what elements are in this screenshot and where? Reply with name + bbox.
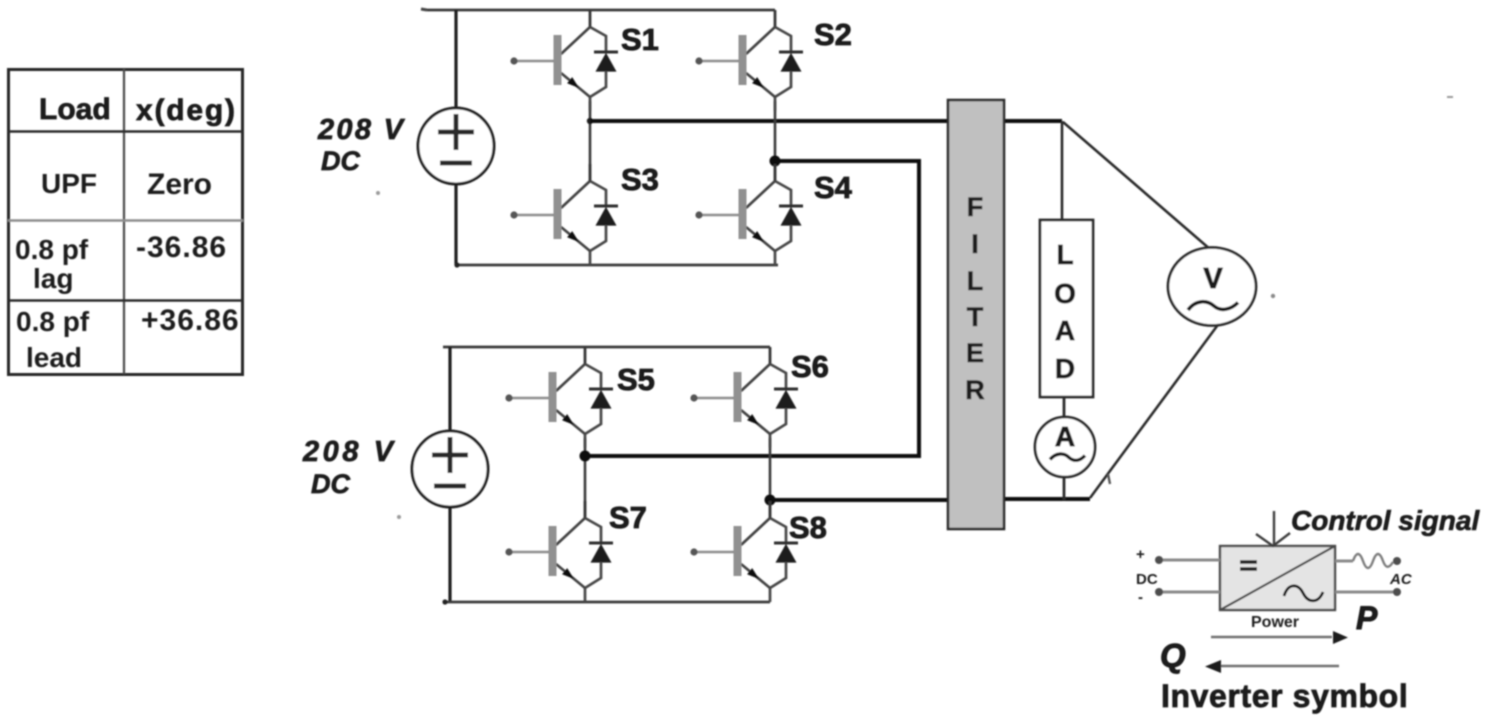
svg-text:S7: S7 xyxy=(609,500,647,535)
arrow Q (reactive power) xyxy=(1205,660,1339,673)
control signal arrow into inverter xyxy=(1256,511,1290,546)
bridge 1 top bus wire xyxy=(427,9,775,12)
bridge 2 bottom bus wire xyxy=(442,599,770,604)
svg-text:208 V: 208 V xyxy=(317,114,406,146)
svg-text:DC: DC xyxy=(311,469,350,499)
svg-text:D: D xyxy=(1055,353,1075,384)
label Q xyxy=(1160,637,1186,674)
label + DC - xyxy=(1136,546,1158,606)
wire bridge2 output B to filter xyxy=(770,498,949,502)
source V2 bottom lead wire xyxy=(448,507,451,602)
bridge 1 bottom bus wire xyxy=(454,262,778,267)
inverter AC side leads xyxy=(1335,554,1401,596)
svg-text:+: + xyxy=(1136,546,1145,563)
svg-text:V: V xyxy=(1203,263,1223,295)
wire filter output top xyxy=(1004,119,1062,123)
label AC xyxy=(1389,571,1413,588)
label S2 xyxy=(814,17,852,52)
label S1 xyxy=(621,22,659,57)
wire filter output bottom xyxy=(1004,497,1090,501)
label Inverter symbol xyxy=(1161,678,1408,714)
svg-text:DC: DC xyxy=(1136,571,1158,588)
wire bridge1 output A to filter xyxy=(590,119,949,123)
label S5 xyxy=(617,362,655,397)
label S4 xyxy=(814,170,853,205)
table of load vs x(deg) xyxy=(8,69,243,375)
switch S3 (IGBT with diode) xyxy=(510,164,618,265)
svg-text:I: I xyxy=(971,229,979,259)
svg-text:A: A xyxy=(1055,421,1075,452)
svg-text:E: E xyxy=(966,338,984,368)
bridge 1 leg B vertical wire (S2-S4) xyxy=(774,101,777,181)
value label 208 V DC (source V1) xyxy=(317,114,406,176)
node: bridge1 output B junction dot xyxy=(770,156,781,167)
svg-text:S6: S6 xyxy=(791,349,829,384)
label Control signal xyxy=(1291,505,1480,536)
svg-text:lag: lag xyxy=(33,263,73,294)
source V1 top lead wire xyxy=(454,10,457,109)
DC source V1 208V xyxy=(418,108,494,184)
svg-text:F: F xyxy=(967,192,984,222)
ammeter A xyxy=(1035,417,1095,477)
svg-text:0.8 pf: 0.8 pf xyxy=(16,306,90,337)
DC source V2 208V xyxy=(412,431,488,507)
LOAD block xyxy=(1040,220,1093,397)
svg-text:-36.86: -36.86 xyxy=(136,231,227,264)
svg-text:L: L xyxy=(1056,239,1073,270)
svg-text:DC: DC xyxy=(321,146,360,176)
svg-text:x(deg): x(deg) xyxy=(136,94,237,127)
svg-text:S3: S3 xyxy=(621,162,659,197)
svg-text:S5: S5 xyxy=(617,362,655,397)
svg-text:L: L xyxy=(967,266,984,296)
bridge 1 leg A vertical wire (S1-S3) xyxy=(589,101,592,181)
label S3 xyxy=(621,162,659,197)
wire bridge1 output B to cascade link xyxy=(775,159,917,163)
svg-text:Zero: Zero xyxy=(147,168,212,201)
node: bridge2 output A junction dot xyxy=(580,451,591,462)
svg-text:AC: AC xyxy=(1389,571,1413,588)
svg-text:P: P xyxy=(1356,600,1378,636)
label S6 xyxy=(791,349,829,384)
stray scan marks xyxy=(376,9,1453,519)
bridge 2 leg A vertical wire (S5-S7) xyxy=(584,438,587,518)
switch S8 (IGBT with diode) xyxy=(690,501,798,602)
switch S6 (IGBT with diode) xyxy=(690,347,798,448)
label P xyxy=(1356,600,1378,636)
svg-text:0.8 pf: 0.8 pf xyxy=(15,234,89,265)
label S8 xyxy=(789,510,827,545)
switch S7 (IGBT with diode) xyxy=(505,501,613,602)
wire cascade link to bridge2 output A xyxy=(585,454,921,458)
bridge 2 leg B vertical wire (S6-S8) xyxy=(769,438,772,518)
svg-text:Load: Load xyxy=(39,93,111,126)
source V1 bottom lead wire xyxy=(454,184,457,265)
inverter DC side leads xyxy=(1155,556,1220,596)
switch S1 (IGBT with diode) xyxy=(510,10,618,111)
svg-text:T: T xyxy=(967,302,984,332)
wire cascade link vertical xyxy=(917,159,921,458)
svg-text:Control signal: Control signal xyxy=(1291,505,1480,536)
switch S4 (IGBT with diode) xyxy=(695,164,803,265)
svg-text:UPF: UPF xyxy=(41,168,97,199)
svg-text:R: R xyxy=(965,375,985,405)
switch S2 (IGBT with diode) xyxy=(695,10,803,111)
arrow P (active power) xyxy=(1211,631,1348,644)
wire load to ammeter xyxy=(1063,397,1066,418)
voltmeter V xyxy=(1168,248,1256,326)
svg-text:S1: S1 xyxy=(621,22,659,57)
value label 208 V DC (source V2) xyxy=(302,436,396,499)
svg-text:S8: S8 xyxy=(789,510,827,545)
source V2 top lead wire xyxy=(448,347,451,432)
svg-text:Inverter symbol: Inverter symbol xyxy=(1161,678,1408,714)
wire load top lead xyxy=(1061,121,1064,221)
wire voltmeter top diagonal xyxy=(1063,122,1211,250)
node: bridge1 output A junction xyxy=(587,118,593,124)
svg-text:S2: S2 xyxy=(814,17,852,52)
svg-text:Q: Q xyxy=(1160,637,1186,674)
svg-text:O: O xyxy=(1054,278,1076,309)
FILTER block xyxy=(948,100,1004,529)
switch S5 (IGBT with diode) xyxy=(505,347,613,448)
svg-text:S4: S4 xyxy=(814,170,853,205)
bridge 2 top bus wire xyxy=(443,346,770,349)
svg-text:-: - xyxy=(1138,589,1143,606)
svg-text:208 V: 208 V xyxy=(302,436,396,468)
svg-text:A: A xyxy=(1055,315,1075,346)
svg-text:+36.86: +36.86 xyxy=(141,304,240,337)
svg-text:lead: lead xyxy=(26,342,82,373)
label S7 xyxy=(609,500,647,535)
node: bridge2 output B junction dot xyxy=(765,495,776,506)
label Power xyxy=(1251,614,1299,631)
wire ammeter to bottom wire xyxy=(1063,476,1066,500)
svg-text:Power: Power xyxy=(1251,614,1299,631)
inverter symbol box xyxy=(1220,546,1335,610)
wire voltmeter bottom diagonal xyxy=(1090,322,1220,498)
